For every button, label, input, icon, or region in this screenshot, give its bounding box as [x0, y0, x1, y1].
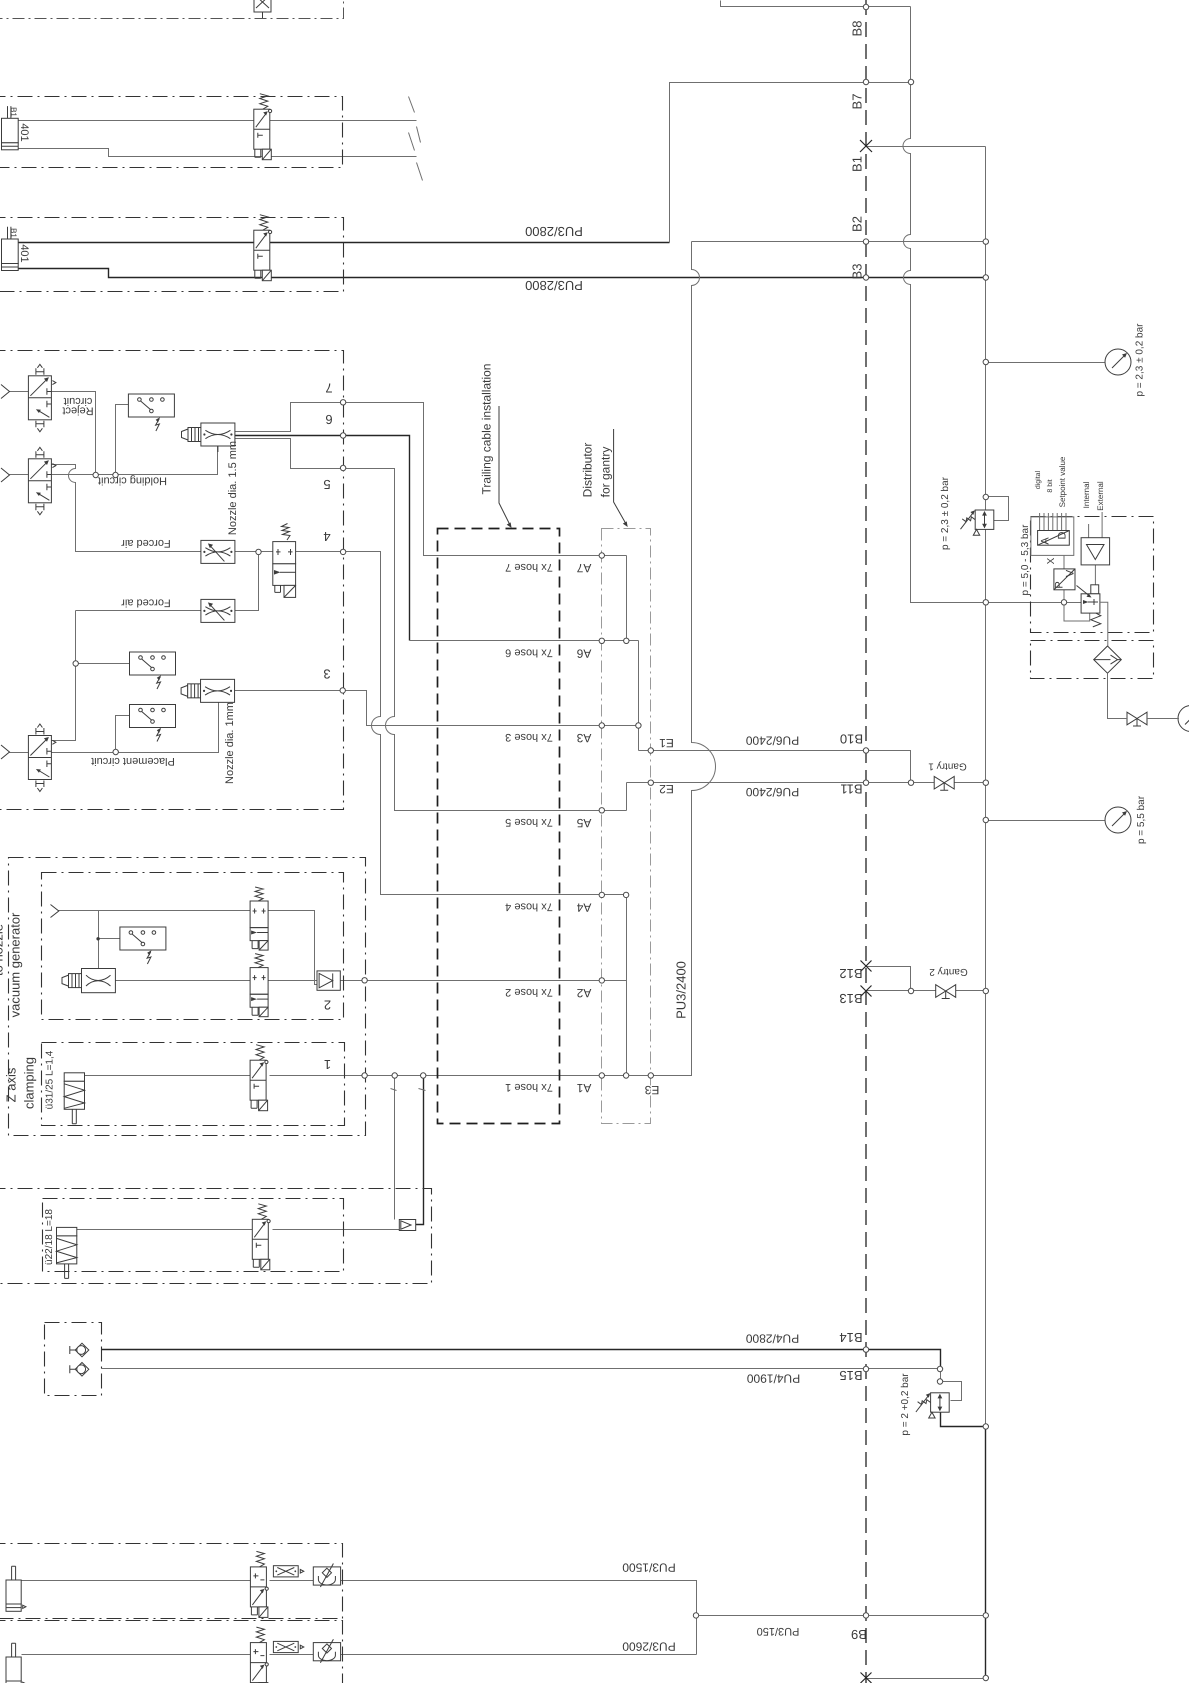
svg-text:7x hose 3: 7x hose 3 — [505, 731, 553, 743]
svg-text:Trailing cable installation: Trailing cable installation — [480, 364, 494, 495]
svg-text:4: 4 — [323, 529, 330, 544]
svg-text:X: X — [1046, 557, 1057, 564]
svg-text:External: External — [1096, 481, 1105, 511]
svg-text:B14: B14 — [839, 1330, 862, 1345]
svg-text:5: 5 — [323, 477, 330, 492]
svg-text:7x hose 7: 7x hose 7 — [505, 561, 553, 573]
svg-text:p = 2,3 ± 0,2 bar: p = 2,3 ± 0,2 bar — [1135, 323, 1146, 397]
svg-text:PU3/150: PU3/150 — [757, 1625, 800, 1637]
svg-text:digital: digital — [1034, 470, 1042, 489]
svg-text:clamping: clamping — [22, 1057, 37, 1109]
svg-text:401: 401 — [18, 244, 30, 262]
svg-text:A2: A2 — [576, 986, 591, 1000]
svg-text:ü31/25 L=1,4: ü31/25 L=1,4 — [45, 1050, 56, 1109]
svg-text:Forced air: Forced air — [121, 537, 171, 549]
svg-text:PU6/2400: PU6/2400 — [745, 734, 799, 748]
svg-text:PU4/1900: PU4/1900 — [746, 1372, 800, 1386]
svg-text:V: V — [1065, 569, 1077, 577]
svg-text:7x hose 1: 7x hose 1 — [505, 1081, 553, 1093]
svg-text:PU3/2800: PU3/2800 — [525, 224, 583, 239]
svg-text:7: 7 — [325, 381, 332, 396]
svg-text:A7: A7 — [576, 561, 591, 575]
svg-text:Internal: Internal — [1082, 481, 1091, 508]
svg-text:PU3/2800: PU3/2800 — [525, 278, 583, 293]
svg-text:Distributor: Distributor — [581, 443, 595, 498]
svg-text:E3: E3 — [644, 1083, 659, 1097]
svg-text:Nozzle dia. 1.5 mm: Nozzle dia. 1.5 mm — [227, 441, 239, 535]
svg-text:B8: B8 — [850, 21, 865, 37]
svg-text:7x hose 4: 7x hose 4 — [505, 900, 553, 912]
svg-text:A4: A4 — [576, 900, 591, 914]
svg-text:8 bit: 8 bit — [1046, 479, 1054, 492]
svg-text:Reject: Reject — [62, 405, 93, 417]
svg-text:PU6/2400: PU6/2400 — [745, 785, 799, 799]
svg-text:Placement circuit: Placement circuit — [91, 755, 175, 767]
svg-text:Gantry 1: Gantry 1 — [928, 761, 967, 772]
svg-text:PU3/1500: PU3/1500 — [622, 1561, 676, 1575]
svg-text:3: 3 — [323, 667, 330, 682]
svg-text:E1: E1 — [659, 736, 674, 750]
svg-text:B2: B2 — [850, 216, 865, 232]
svg-text:A: A — [1040, 537, 1052, 545]
svg-text:P: P — [1054, 581, 1066, 588]
svg-text:B13: B13 — [839, 991, 862, 1006]
svg-text:Forced air: Forced air — [121, 597, 171, 609]
svg-text:E2: E2 — [659, 782, 674, 796]
svg-text:B15: B15 — [839, 1368, 862, 1383]
svg-text:PU4/2800: PU4/2800 — [745, 1332, 799, 1346]
svg-text:A6: A6 — [576, 646, 591, 660]
svg-text:Z axis: Z axis — [4, 1067, 19, 1102]
svg-text:ü22/18 L=18: ü22/18 L=18 — [44, 1209, 55, 1265]
svg-text:for gantry: for gantry — [599, 447, 613, 498]
svg-text:7x hose 6: 7x hose 6 — [505, 646, 553, 658]
svg-text:Gantry 2: Gantry 2 — [929, 966, 968, 977]
svg-text:to nozzle: to nozzle — [0, 924, 6, 976]
svg-text:B10: B10 — [840, 732, 863, 747]
svg-text:B1: B1 — [9, 107, 18, 117]
svg-text:p = 5,0 - 5,3 bar: p = 5,0 - 5,3 bar — [1020, 524, 1031, 596]
svg-text:B1: B1 — [9, 228, 18, 238]
svg-text:p = 2 +0,2 bar: p = 2 +0,2 bar — [900, 1373, 911, 1436]
svg-text:7x hose 2: 7x hose 2 — [505, 986, 553, 998]
svg-text:7x hose 5: 7x hose 5 — [505, 816, 553, 828]
svg-text:B11: B11 — [840, 782, 862, 797]
svg-text:B3: B3 — [850, 264, 865, 280]
svg-text:A1: A1 — [576, 1081, 591, 1095]
svg-text:vacuum generator: vacuum generator — [8, 912, 23, 1017]
svg-text:PU3/2400: PU3/2400 — [674, 961, 689, 1019]
svg-text:A3: A3 — [576, 731, 591, 745]
svg-text:p = 5,5 bar: p = 5,5 bar — [1136, 795, 1147, 844]
svg-text:2: 2 — [324, 997, 331, 1012]
svg-text:B12: B12 — [839, 966, 862, 981]
svg-text:D: D — [1057, 531, 1069, 539]
svg-text:401: 401 — [18, 123, 30, 141]
svg-text:p = 2,3 ± 0,2 bar: p = 2,3 ± 0,2 bar — [940, 476, 951, 550]
svg-text:B9: B9 — [851, 1627, 867, 1642]
svg-text:B7: B7 — [850, 94, 865, 110]
svg-text:6: 6 — [325, 412, 332, 427]
svg-text:B1: B1 — [850, 156, 865, 172]
svg-text:PU3/2600: PU3/2600 — [622, 1640, 676, 1654]
svg-text:Setpoint value: Setpoint value — [1058, 456, 1067, 507]
svg-text:1: 1 — [324, 1057, 331, 1072]
svg-text:Nozzle dia. 1mm: Nozzle dia. 1mm — [224, 702, 236, 784]
svg-text:Holding circuit: Holding circuit — [98, 475, 167, 487]
svg-text:A5: A5 — [576, 816, 591, 830]
